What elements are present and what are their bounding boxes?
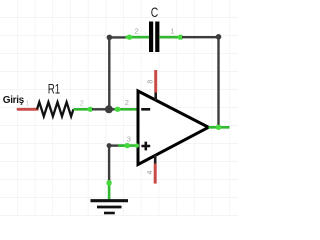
op-amp U1 body bbox=[138, 91, 209, 165]
op-amp U1 pin 4 (V-, unconnected red) bbox=[154, 155, 157, 164]
wire junction up to feedback rail bbox=[108, 37, 110, 109]
resistor R1 pin 1 (unconnected, red lead) bbox=[18, 108, 37, 111]
capacitor C pin 2 lead (green) bbox=[125, 36, 149, 39]
wire junction to op-amp pin 2 bbox=[109, 108, 116, 110]
svg-text:Giriş: Giriş bbox=[3, 95, 25, 106]
wire corner to op-amp pin 3 bbox=[109, 144, 125, 146]
capacitor C pin 1 lead (green) bbox=[159, 36, 182, 39]
op-amp U1 pin 8 (V+, unconnected red) bbox=[154, 70, 157, 93]
svg-text:1: 1 bbox=[170, 26, 174, 35]
svg-text:2: 2 bbox=[125, 98, 129, 107]
wire pin-3 corner down to ground bbox=[108, 146, 110, 181]
svg-text:2: 2 bbox=[80, 99, 84, 108]
op-amp U1 inverting input marker bbox=[141, 108, 150, 111]
wire capacitor to right corner bbox=[182, 36, 219, 38]
node dot top-right corner bbox=[216, 34, 222, 40]
resistor R1 pin 2 (green lead) bbox=[73, 108, 92, 111]
capacitor C plate 1 bbox=[149, 22, 153, 53]
svg-text:8: 8 bbox=[148, 80, 155, 84]
wire R1 to junction node bbox=[92, 108, 106, 110]
resistor R1 body bbox=[37, 102, 73, 116]
capacitor C plate 2 bbox=[155, 22, 159, 53]
svg-text:4: 4 bbox=[147, 171, 154, 175]
node dot pin-3 corner bbox=[107, 143, 112, 148]
wire corner to capacitor pin 2 bbox=[109, 36, 126, 38]
svg-text:1: 1 bbox=[25, 99, 29, 108]
wire feedback down to output bbox=[217, 37, 219, 128]
ground lead (green) bbox=[108, 180, 111, 200]
op-amp U1 pin 3 lead (green) bbox=[118, 144, 138, 147]
svg-text:3: 3 bbox=[127, 135, 131, 144]
op-amp U1 pin 1 output lead (green) bbox=[209, 126, 230, 129]
svg-text:C: C bbox=[151, 4, 159, 20]
svg-text:2: 2 bbox=[135, 26, 139, 35]
svg-text:R1: R1 bbox=[48, 80, 61, 96]
junction node dot bbox=[105, 105, 113, 113]
op-amp U1 non-inverting input marker bbox=[141, 142, 150, 151]
ground symbol bbox=[91, 201, 129, 213]
op-amp U1 pin 2 lead (green) bbox=[115, 108, 139, 111]
node dot top-left corner bbox=[107, 35, 113, 41]
